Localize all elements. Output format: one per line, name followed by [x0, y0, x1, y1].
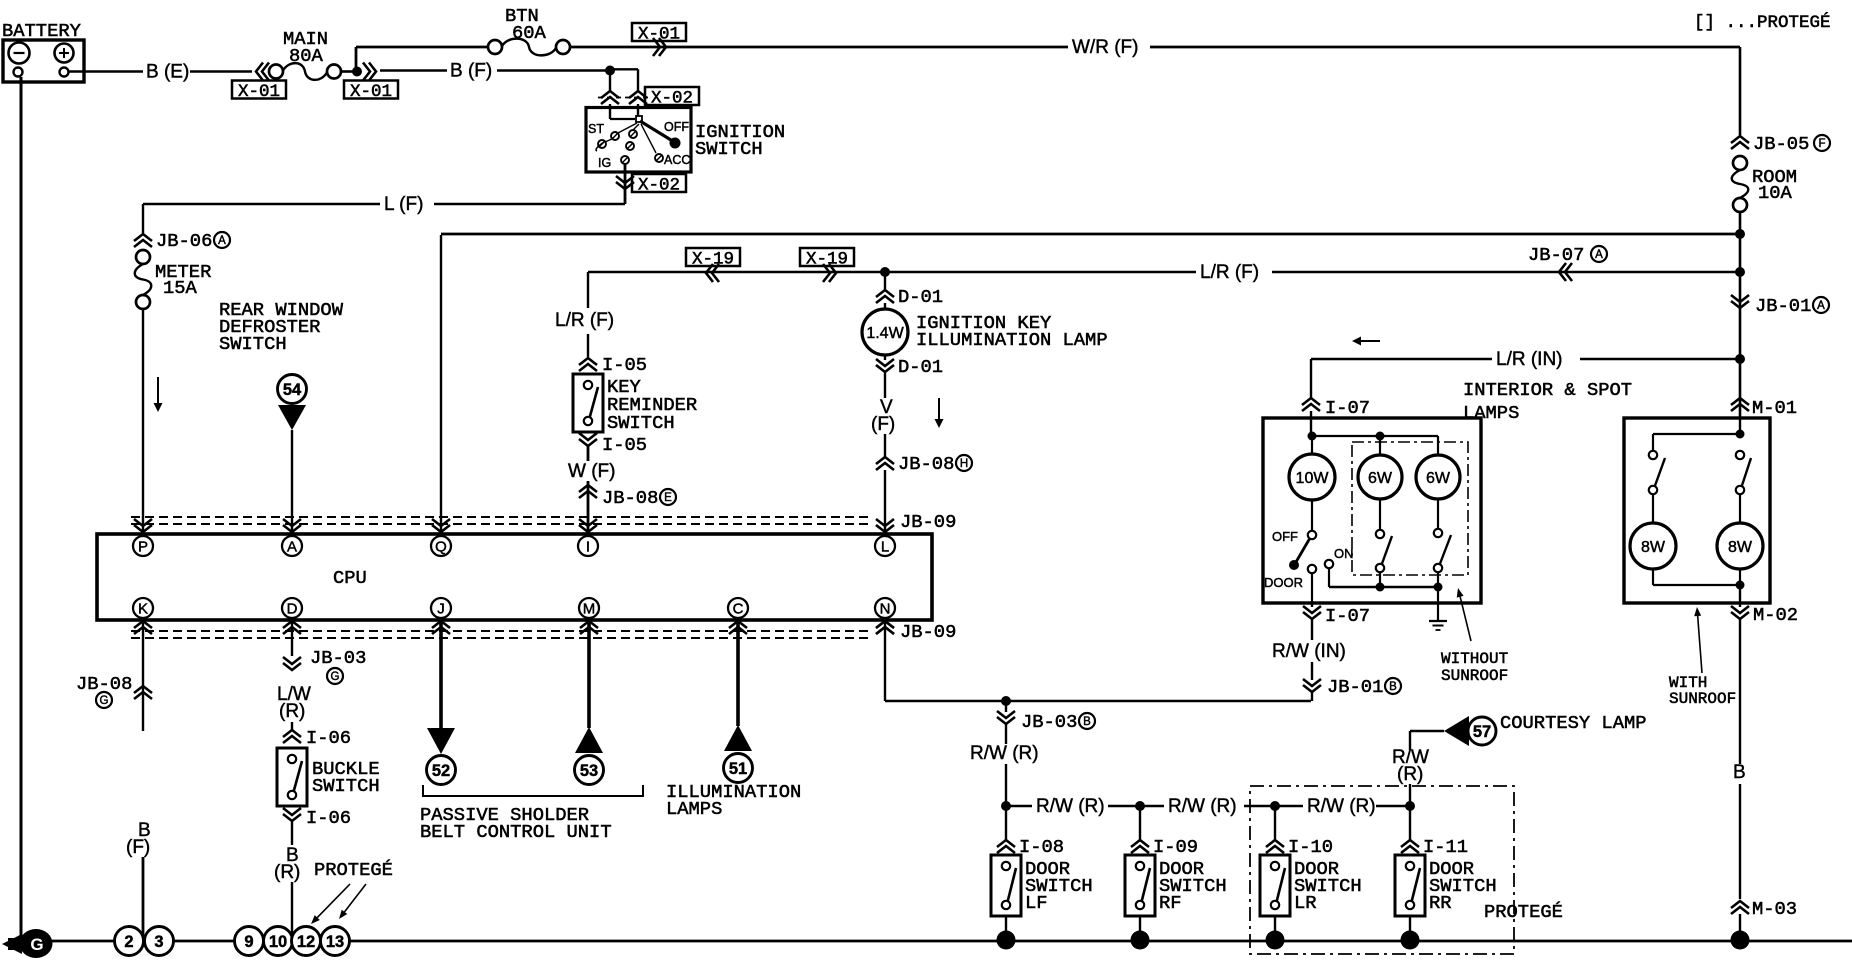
junction RF to ground bus [1131, 931, 1150, 950]
door switch LF [991, 855, 1021, 916]
junction LF to ground bus [997, 931, 1016, 950]
svg-text:G: G [30, 935, 43, 954]
svg-text:10A: 10A [1758, 182, 1793, 204]
svg-text:W (F): W (F) [568, 461, 615, 482]
svg-text:60A: 60A [512, 22, 547, 44]
svg-text:J: J [437, 600, 445, 617]
svg-text:A: A [287, 538, 297, 555]
connector D-01 top [876, 290, 894, 303]
wire K feed ground B(F) [142, 618, 144, 731]
wire R/W(R) branch [1005, 701, 1007, 712]
svg-text:SWITCH: SWITCH [695, 138, 763, 160]
svg-text:12: 12 [297, 933, 315, 951]
svg-text:L/R (IN): L/R (IN) [1496, 349, 1563, 370]
direction arrow [1361, 340, 1380, 342]
triangle connector up [724, 725, 752, 751]
svg-text:JB-01: JB-01 [1327, 676, 1383, 698]
connector M-02 [1731, 606, 1749, 619]
svg-text:JB-09: JB-09 [900, 511, 956, 533]
door switch RR [1395, 855, 1425, 916]
connector X-19 right [800, 248, 854, 266]
svg-text:X-01: X-01 [238, 82, 280, 102]
connector JB-06 A [134, 234, 152, 247]
svg-text:COURTESY LAMP: COURTESY LAMP [1500, 712, 1647, 734]
svg-text:RF: RF [1159, 892, 1182, 914]
wire door switch RF [1139, 806, 1141, 840]
connector D-01 bottom [884, 355, 886, 360]
svg-text:B (E): B (E) [146, 62, 189, 83]
wire courtesy lamp R/W(R) [1409, 784, 1411, 806]
lamp 10W [1311, 436, 1313, 454]
bracket passive shoulder belt control unit [423, 785, 643, 796]
wire A feed [291, 430, 293, 536]
svg-text:3: 3 [154, 933, 163, 951]
CPU pin P [133, 536, 153, 556]
lamp wiring top [1308, 432, 1317, 441]
connector I-05 top [579, 358, 597, 371]
wire door switch LR [1274, 806, 1276, 840]
connector JB-01 B [1303, 679, 1321, 692]
wire bus to room fuse junction [441, 233, 1740, 236]
svg-text:6W: 6W [1426, 470, 1451, 487]
triangle connector 54 [278, 405, 306, 430]
svg-text:ST: ST [588, 122, 604, 136]
wire D feed buckle switch [291, 618, 293, 656]
svg-text:WITHOUT: WITHOUT [1441, 650, 1508, 668]
fuse MAIN 80A [269, 65, 283, 79]
wire Q feed [440, 235, 442, 536]
svg-text:B: B [1083, 716, 1091, 728]
svg-text:I-05: I-05 [602, 434, 647, 456]
triangle connector down [427, 728, 455, 754]
svg-text:PROTEGÉ: PROTEGÉ [1484, 901, 1563, 923]
svg-text:X-02: X-02 [651, 89, 693, 109]
svg-text:10: 10 [269, 933, 287, 951]
ignition key illumination lamp 1.4W [862, 309, 908, 355]
svg-text:N: N [880, 600, 891, 617]
svg-text:51: 51 [729, 760, 747, 778]
wire C feed to 51 [736, 618, 740, 726]
svg-text:OFF: OFF [1272, 529, 1298, 544]
svg-text:K: K [138, 600, 148, 617]
fuse BTN 60A [488, 40, 502, 54]
CPU box [97, 534, 932, 620]
fuse METER 15A [136, 250, 150, 264]
6W switches [1379, 499, 1381, 530]
interior and spot lamps box [1263, 418, 1481, 603]
fuse ROOM 10A [1733, 156, 1747, 170]
svg-text:B: B [1733, 762, 1746, 783]
wire IG to L(F) [624, 164, 627, 204]
svg-text:D-01: D-01 [898, 286, 943, 308]
svg-text:I-11: I-11 [1423, 836, 1468, 858]
junction RR to ground bus [1401, 931, 1420, 950]
ground bus [48, 940, 1852, 943]
with sunroof box [1624, 418, 1770, 603]
connector X-02 bottom [616, 176, 634, 189]
svg-text:BATTERY: BATTERY [2, 20, 81, 42]
svg-text:JB-07: JB-07 [1528, 244, 1584, 266]
lamp 8W left [1652, 494, 1654, 523]
svg-text:PROTEGÉ: PROTEGÉ [314, 859, 393, 881]
svg-text:B: B [1389, 681, 1397, 693]
sunroof lamp return wires [1652, 569, 1654, 585]
connector I-06 top [283, 730, 301, 743]
wire L(F) [434, 203, 625, 205]
node 57 courtesy lamp [1468, 717, 1496, 745]
svg-text:JB-03: JB-03 [1021, 711, 1077, 733]
triangle connector up [575, 727, 603, 753]
connector I-06 bottom [283, 808, 301, 821]
wire L/R(F) [588, 271, 1196, 273]
connector JB-09 bottom [876, 621, 894, 634]
harness dashed lines above CPU [131, 516, 868, 518]
svg-text:G: G [100, 695, 109, 707]
svg-text:E: E [664, 492, 672, 504]
svg-text:SUNROOF: SUNROOF [1441, 667, 1508, 685]
svg-text:P: P [138, 538, 148, 555]
wire B(F) to ignition switch [380, 69, 447, 71]
connector M-01 [1731, 398, 1749, 411]
node 54 rear defroster switch [278, 375, 307, 404]
CPU pin A [282, 536, 302, 556]
ignition contacts [618, 123, 637, 133]
connector I-07 top [1302, 398, 1320, 411]
svg-text:W/R (F): W/R (F) [1072, 37, 1138, 58]
svg-text:10W: 10W [1296, 470, 1330, 487]
buckle switch [277, 748, 307, 806]
svg-text:I-05: I-05 [602, 354, 647, 376]
svg-text:M-03: M-03 [1752, 898, 1797, 920]
ground symbol G [20, 929, 53, 958]
svg-text:D: D [287, 600, 298, 617]
lamp 8W right [1739, 494, 1741, 523]
without sunroof dash-dot box [1352, 442, 1468, 575]
connector JB-08 G [134, 686, 152, 699]
interior lamp switch OFF/DOOR/ON [1311, 500, 1313, 531]
connector X-19 left [686, 248, 740, 266]
svg-text:SUNROOF: SUNROOF [1669, 690, 1736, 708]
svg-text:R/W (R): R/W (R) [1168, 796, 1237, 817]
connector I-08 [997, 840, 1015, 853]
connector JB-08 E [579, 485, 597, 498]
junction L/R(F) to lamp [880, 267, 890, 277]
svg-text:I-10: I-10 [1288, 836, 1333, 858]
junction to JB-03 B [1001, 696, 1011, 706]
wire B to ground bus [1739, 619, 1741, 764]
svg-text:CPU: CPU [333, 567, 367, 589]
svg-text:A: A [1817, 300, 1825, 312]
battery negative wire to ground [20, 77, 23, 938]
svg-text:1.4W: 1.4W [866, 325, 904, 342]
svg-text:(R): (R) [274, 862, 300, 883]
svg-text:2: 2 [124, 933, 133, 951]
connector I-07 bottom [1311, 603, 1313, 607]
svg-text:I: I [586, 538, 590, 555]
svg-text:DOOR: DOOR [1264, 575, 1303, 590]
CPU pin J [431, 598, 451, 618]
connector X-01 left [256, 63, 269, 81]
svg-text:X-01: X-01 [350, 82, 392, 102]
svg-text:SWITCH: SWITCH [607, 412, 675, 434]
svg-text:JB-05: JB-05 [1753, 133, 1809, 155]
CPU pin N [875, 598, 895, 618]
connector I-10 [1266, 840, 1284, 853]
junction L/R(IN) [1735, 354, 1745, 364]
svg-text:JB-06: JB-06 [156, 230, 212, 252]
svg-text:RR: RR [1429, 892, 1452, 914]
svg-text:X-01: X-01 [638, 25, 680, 45]
svg-text:L: L [881, 538, 889, 555]
svg-text:13: 13 [326, 933, 344, 951]
wire M feed to 53 [587, 618, 591, 728]
PROTEGE dash-dot box [1250, 786, 1514, 954]
svg-text:OFF: OFF [664, 120, 689, 134]
label without sunroof [1460, 597, 1471, 641]
svg-text:JB-01: JB-01 [1755, 295, 1811, 317]
svg-text:LAMPS: LAMPS [1463, 402, 1519, 424]
connector I-05 bottom [579, 433, 597, 446]
lamp 6W left [1379, 436, 1381, 455]
pin 9 [235, 927, 264, 956]
node 52 [427, 756, 456, 785]
junction W/R bus [1735, 229, 1745, 239]
svg-text:JB-08: JB-08 [602, 487, 658, 509]
svg-text:R/W (R): R/W (R) [970, 743, 1039, 764]
wire I-07 feed [1310, 359, 1312, 398]
svg-text:80A: 80A [289, 45, 324, 67]
connector M-03 [1731, 901, 1749, 914]
svg-text:JB-08: JB-08 [898, 453, 954, 475]
wire right column from W/R(F) [1739, 47, 1742, 135]
wire ON to ground [1328, 568, 1330, 587]
wire door switch RR [1409, 806, 1411, 840]
svg-text:52: 52 [432, 762, 450, 780]
svg-text:R/W (IN): R/W (IN) [1272, 641, 1346, 662]
harness dashed lines below CPU [131, 630, 868, 632]
junction LR to ground bus [1266, 931, 1285, 950]
wire J feed to 52 [439, 618, 443, 728]
svg-text:15A: 15A [163, 277, 198, 299]
connector JB-09 top [876, 519, 894, 532]
connector X-01 right [363, 63, 376, 81]
wire L/R(IN) [1311, 358, 1492, 360]
wire N feed R/W(IN) [884, 618, 886, 701]
pin 3 [145, 927, 174, 956]
svg-text:I-06: I-06 [306, 727, 351, 749]
sunroof switch left [1652, 434, 1654, 451]
svg-text:(R): (R) [1397, 764, 1423, 785]
pin 13 [321, 927, 350, 956]
svg-text:C: C [733, 600, 744, 617]
svg-text:8W: 8W [1728, 539, 1753, 556]
triangle connector courtesy [1444, 716, 1469, 746]
svg-text:L/R (F): L/R (F) [1200, 262, 1259, 283]
ignition lever to OFF [640, 121, 671, 140]
door switch RF [1125, 855, 1155, 916]
svg-text:[] ...PROTEGÉ: [] ...PROTEGÉ [1694, 11, 1831, 33]
connector JB-03 B [997, 711, 1015, 724]
svg-text:M: M [583, 600, 596, 617]
ignition switch [586, 108, 691, 173]
svg-text:9: 9 [244, 933, 253, 951]
CPU pin K [133, 598, 153, 618]
junction top [1739, 418, 1741, 434]
CPU pin M [579, 598, 599, 618]
CPU pin C [728, 598, 748, 618]
svg-text:ILLUMINATION LAMP: ILLUMINATION LAMP [916, 329, 1108, 351]
svg-text:LR: LR [1294, 892, 1317, 914]
wire B(E) battery to MAIN fuse [68, 70, 143, 73]
wire door switch LF [1005, 806, 1007, 840]
node 53 [575, 756, 604, 785]
svg-text:X-19: X-19 [692, 250, 734, 270]
connector JB-03 G [283, 657, 301, 670]
svg-text:D-01: D-01 [898, 356, 943, 378]
svg-text:L/R (F): L/R (F) [555, 310, 614, 331]
svg-text:H: H [960, 458, 968, 470]
svg-text:54: 54 [283, 381, 302, 399]
svg-text:IG: IG [598, 156, 611, 170]
svg-text:(F): (F) [126, 837, 150, 858]
svg-text:57: 57 [1473, 723, 1491, 741]
wire R/W(R) distribution [1001, 801, 1011, 811]
svg-text:JB-09: JB-09 [900, 621, 956, 643]
svg-text:(F): (F) [871, 414, 895, 435]
svg-text:I-09: I-09 [1153, 836, 1198, 858]
svg-text:SWITCH: SWITCH [312, 775, 380, 797]
wire I feed key reminder [587, 272, 589, 308]
label with sunroof [1698, 616, 1702, 673]
svg-text:ON: ON [1334, 546, 1354, 561]
current arrow [157, 377, 159, 403]
svg-text:INTERIOR & SPOT: INTERIOR & SPOT [1463, 379, 1632, 401]
svg-text:I-06: I-06 [306, 807, 351, 829]
battery [3, 40, 84, 82]
svg-text:B (F): B (F) [450, 61, 492, 82]
arrows to pins 12 13 [317, 884, 350, 918]
pin 2 [115, 927, 144, 956]
svg-text:G: G [331, 671, 340, 683]
svg-text:LAMPS: LAMPS [666, 798, 722, 820]
svg-text:SWITCH: SWITCH [219, 333, 287, 355]
CPU pin L [875, 536, 895, 556]
connector chevrons into CPU pin P [134, 519, 152, 532]
connector X-02 top [598, 97, 650, 99]
svg-text:R/W (R): R/W (R) [1307, 796, 1376, 817]
node 51 [724, 754, 753, 783]
current arrow [938, 398, 940, 419]
svg-text:ACC: ACC [664, 153, 690, 167]
svg-text:6W: 6W [1368, 470, 1393, 487]
wire L feed ignition key lamp [884, 272, 886, 290]
svg-text:Q: Q [435, 538, 447, 555]
svg-text:LF: LF [1025, 892, 1048, 914]
svg-text:(R): (R) [279, 701, 305, 722]
svg-text:M-02: M-02 [1753, 604, 1798, 626]
svg-text:8W: 8W [1641, 539, 1666, 556]
connector JB-05 F [1731, 136, 1749, 149]
pin 10 [264, 927, 293, 956]
wire ignition feed branches [609, 71, 611, 92]
connector X-01 top [632, 23, 686, 41]
svg-text:M-01: M-01 [1752, 397, 1797, 419]
ground symbol interior lamps [1437, 587, 1439, 621]
CPU pin Q [431, 536, 451, 556]
svg-text:I-08: I-08 [1019, 836, 1064, 858]
svg-text:53: 53 [580, 762, 598, 780]
svg-text:X-19: X-19 [806, 250, 848, 270]
svg-text:L (F): L (F) [384, 194, 423, 215]
connector I-11 [1401, 840, 1419, 853]
CPU pin D [282, 598, 302, 618]
svg-text:I-07: I-07 [1325, 397, 1370, 419]
svg-text:X-02: X-02 [638, 176, 680, 196]
junction node B(F) [341, 70, 356, 73]
svg-text:A: A [1595, 249, 1603, 261]
wire W/R(F) top bus [356, 46, 488, 49]
connector JB-01 A [1731, 295, 1749, 308]
key reminder switch [573, 374, 603, 432]
svg-text:F: F [1818, 138, 1825, 150]
sunroof switch right [1736, 451, 1744, 459]
lamp 6W right [1437, 436, 1439, 455]
CPU pin I [578, 536, 598, 556]
door switch LR [1260, 855, 1290, 916]
connector JB-08 H [876, 457, 894, 470]
svg-text:BELT CONTROL UNIT: BELT CONTROL UNIT [420, 821, 612, 843]
wire riser to BTN fuse [355, 47, 358, 72]
svg-text:R/W (R): R/W (R) [1036, 796, 1105, 817]
wire P feed meter fuse branch [142, 204, 144, 233]
pin 12 [292, 927, 321, 956]
junction at room fuse column [1735, 267, 1745, 277]
connector I-09 [1131, 840, 1149, 853]
svg-text:A: A [218, 235, 226, 247]
svg-text:I-07: I-07 [1325, 605, 1370, 627]
svg-text:JB-03: JB-03 [310, 647, 366, 669]
